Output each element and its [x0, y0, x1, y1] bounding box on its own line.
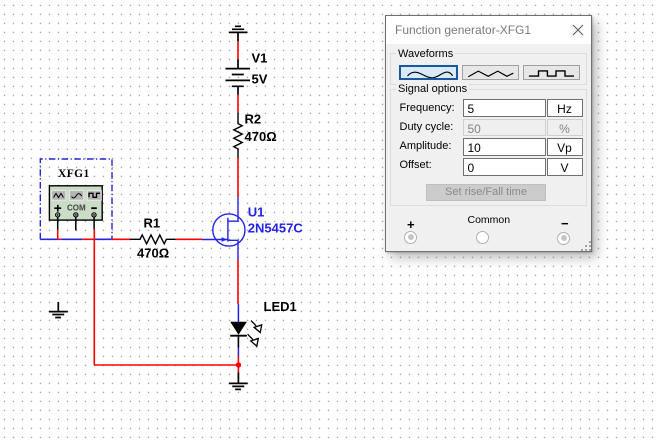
svg-text:U1: U1	[248, 204, 265, 219]
resistor R1	[130, 235, 176, 244]
wire	[237, 41, 239, 60]
wire	[237, 158, 239, 197]
svg-text:2N5457C: 2N5457C	[248, 221, 304, 236]
wire	[176, 238, 202, 240]
dialog Function generator-XFG1	[385, 15, 592, 252]
svg-text:LED1: LED1	[264, 299, 297, 314]
wire	[237, 356, 239, 373]
svg-text:XFG1: XFG1	[58, 168, 90, 180]
wire	[94, 364, 238, 366]
XFG1 selection dashed box	[40, 159, 112, 239]
svg-text:470Ω: 470Ω	[137, 246, 169, 261]
transistor U1 (JFET)	[202, 197, 245, 260]
svg-text:COM: COM	[67, 204, 86, 213]
XFG1 plus marker	[54, 205, 61, 212]
XFG1 terminals (+ COM -)	[56, 213, 97, 217]
ground (left, floating)	[49, 302, 68, 318]
XFG1 minus marker	[91, 207, 97, 209]
junction	[236, 362, 241, 367]
XFG1 terminal leads	[57, 217, 59, 229]
LED1	[237, 304, 239, 322]
svg-text:V1: V1	[252, 51, 268, 66]
resistor R2	[234, 112, 242, 158]
svg-text:470Ω: 470Ω	[245, 129, 277, 144]
svg-text:R2: R2	[245, 112, 262, 127]
ground (top, flipped)	[229, 26, 248, 41]
XFG1 instrument icon	[49, 186, 102, 220]
ground (bottom)	[229, 372, 248, 389]
wire	[237, 95, 239, 113]
wire (selected, blue)	[40, 238, 130, 240]
wire	[237, 260, 239, 305]
battery V1	[226, 60, 251, 95]
svg-text:5V: 5V	[252, 72, 268, 87]
svg-text:R1: R1	[144, 216, 161, 231]
